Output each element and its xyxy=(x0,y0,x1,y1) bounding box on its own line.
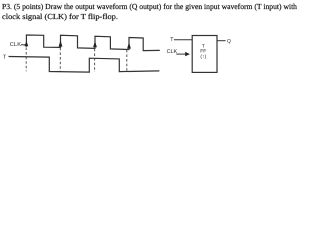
svg-text:P3. (5 points) Draw the output: P3. (5 points) Draw the output waveform … xyxy=(2,2,297,11)
flip-flop box U1 xyxy=(192,36,217,73)
wire: CLK input line xyxy=(176,53,186,55)
wire: CLK lead stub xyxy=(21,44,26,46)
svg-text:Q: Q xyxy=(227,39,231,45)
dashed edge line 3 xyxy=(94,49,96,72)
rising-edge arrow 2 xyxy=(59,40,63,46)
svg-text:clock signal (CLK) for T flip-: clock signal (CLK) for T flip-flop. xyxy=(2,12,118,21)
dashed edge line 2 xyxy=(59,48,61,72)
rising-edge arrow 3 xyxy=(93,41,97,47)
wire: T waveform trace xyxy=(9,57,160,73)
svg-text:CLK: CLK xyxy=(167,49,178,55)
dashed edge line 1 xyxy=(25,47,27,71)
svg-text:(↑): (↑) xyxy=(200,54,206,60)
svg-text:T: T xyxy=(170,37,174,43)
rising-edge arrow 1 xyxy=(25,41,29,46)
svg-text:CLK: CLK xyxy=(10,42,21,48)
svg-text:T: T xyxy=(3,55,7,61)
wire: T input line xyxy=(174,39,192,41)
wire: CLK waveform trace xyxy=(26,35,159,51)
dashed edge line 4 xyxy=(126,50,128,71)
rising-edge arrow 4 xyxy=(127,42,131,48)
wire: Q output line xyxy=(217,40,226,42)
CLK input arrowhead xyxy=(185,52,190,56)
